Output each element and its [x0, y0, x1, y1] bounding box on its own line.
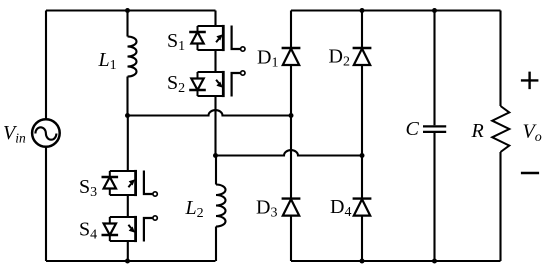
node dot top C [432, 8, 437, 13]
node dot top L1 [125, 8, 130, 13]
wire bottom-right rail [291, 260, 501, 262]
transistor S1 [189, 25, 245, 51]
svg-text:L1: L1 [98, 49, 117, 73]
node dot top D2 [360, 8, 365, 13]
svg-text:D1: D1 [257, 47, 278, 71]
svg-text:S1: S1 [167, 30, 185, 54]
wire D1-D3 vertical [290, 11, 292, 262]
node dot mid L1/S3 [125, 113, 130, 118]
svg-text:C: C [406, 118, 420, 140]
wire top-left rail [46, 9, 216, 11]
wire bottom-left rail [46, 260, 216, 262]
node dot bottom D4 [360, 259, 365, 264]
inductor L2 [216, 185, 226, 227]
output minus sign [521, 172, 539, 175]
voltage source Vin [32, 119, 60, 147]
svg-text:S4: S4 [79, 219, 97, 243]
diode D3 [282, 199, 301, 216]
svg-text:D2: D2 [329, 46, 350, 70]
wire L2 top [215, 156, 217, 185]
wire S1-S2 chain [214, 11, 216, 156]
transistor S4 [102, 216, 158, 242]
inductor L1 [128, 37, 137, 77]
output plus sign [521, 72, 539, 90]
node dot mid D2/D4 [360, 153, 365, 158]
wire L2 bottom [215, 227, 217, 262]
wire D2-D4 vertical [361, 11, 363, 262]
transistor S2 [189, 71, 245, 97]
wire L1 bottom to node [126, 77, 128, 116]
resistor R zigzag [492, 106, 509, 152]
node dot mid S2/L2 [213, 153, 218, 158]
svg-text:D3: D3 [256, 197, 277, 221]
wire mid rail 1 with hop over S1S2 line [128, 110, 292, 115]
svg-text:Vo: Vo [523, 121, 542, 146]
svg-text:Vin: Vin [3, 122, 26, 146]
transistor S3 [102, 170, 158, 196]
svg-text:L2: L2 [185, 197, 204, 221]
svg-text:R: R [471, 120, 484, 142]
wire capacitor branch [433, 11, 435, 262]
node dot bottom C [432, 259, 437, 264]
node dot bottom S4 [125, 259, 130, 264]
wire mid rail 2 with hop over D1D3 line [216, 150, 363, 155]
svg-text:S3: S3 [79, 176, 97, 200]
svg-text:S2: S2 [167, 72, 185, 96]
diode D1 [282, 48, 301, 65]
svg-text:D4: D4 [330, 196, 351, 220]
diode D2 [353, 48, 372, 65]
node dot mid D1 [289, 113, 294, 118]
wire left vertical (Vin branch) [45, 11, 47, 262]
wire S3-S4 chain [127, 116, 129, 262]
capacitor C plates [423, 126, 446, 131]
wire L1 branch top [126, 11, 128, 37]
wire resistor branch [499, 11, 501, 262]
diode D4 [353, 199, 372, 216]
wire top-right rail [291, 9, 501, 11]
